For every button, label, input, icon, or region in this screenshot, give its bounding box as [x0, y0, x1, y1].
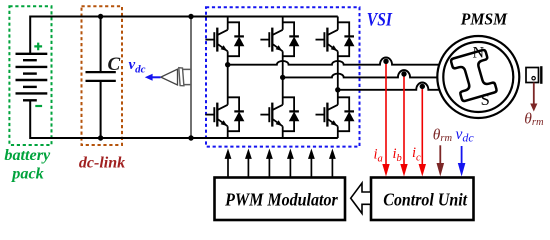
svg-text:VSI: VSI	[367, 10, 393, 30]
hollow arrow control to PWM	[351, 183, 371, 213]
wire capacitor branch	[100, 17, 102, 139]
diode D6	[344, 110, 354, 112]
diode D4	[289, 110, 299, 112]
battery plus label	[34, 43, 42, 51]
battery B1	[16, 53, 48, 55]
node phase A	[225, 62, 230, 67]
dc-link dashed box	[82, 6, 123, 145]
wire top DC rail	[30, 17, 338, 54]
gate signal arrows PWM to VSI	[227, 158, 229, 178]
svg-text:pack: pack	[10, 164, 43, 182]
wire bottom DC rail	[30, 100, 338, 138]
wire leg 3 top	[337, 17, 339, 30]
IGBT Q5	[316, 39, 325, 41]
wire phase A	[228, 57, 440, 64]
svg-text:PMSM: PMSM	[460, 10, 508, 29]
svg-text:N: N	[473, 44, 485, 61]
svg-text:PWM Modulator: PWM Modulator	[224, 190, 338, 210]
encoder dot	[532, 77, 535, 80]
wire leg 1 top	[227, 17, 229, 30]
current sensor ic dot	[420, 84, 425, 89]
svg-text:C: C	[108, 54, 121, 75]
wire phase B	[283, 70, 439, 77]
junction dot bus top	[188, 14, 193, 19]
junction dot cap bottom	[98, 135, 103, 140]
current sensor ib dot	[401, 71, 406, 76]
junction dot cap top	[98, 14, 103, 19]
wire leg 2 top	[282, 17, 284, 30]
svg-text:battery: battery	[4, 146, 51, 164]
motor outer circle	[437, 36, 519, 118]
vdc sensor output arrow	[152, 76, 161, 78]
vdc sensor probe	[183, 69, 191, 84]
IGBT Q4	[260, 114, 269, 116]
wire leg 2 bot	[282, 77, 284, 104]
svg-text:dc-link: dc-link	[79, 154, 125, 171]
battery minus label	[35, 105, 42, 107]
wire phase C	[338, 83, 440, 90]
node phase C	[335, 87, 340, 92]
current sensor ia dot	[383, 59, 388, 64]
diode D2	[234, 110, 244, 112]
svg-text:S: S	[481, 90, 490, 109]
junction dot bus bottom	[188, 135, 193, 140]
motor rotor magnet	[450, 49, 497, 101]
IGBT Q1	[205, 39, 214, 41]
diode D1	[234, 35, 244, 37]
current sensor ic line	[421, 86, 423, 164]
capacitor C	[86, 72, 116, 81]
current sensor ia line	[385, 61, 387, 164]
wire sensor bus	[190, 17, 192, 139]
input v_dc arrow	[461, 146, 463, 164]
wire leg 3 bot	[337, 90, 339, 105]
diode D3	[289, 35, 299, 37]
node phase B	[280, 75, 285, 80]
encoder end plate	[540, 66, 542, 84]
IGBT Q3	[260, 39, 269, 41]
diode D5	[344, 35, 354, 37]
input theta_rm arrow	[439, 145, 441, 163]
current sensor ib line	[403, 74, 405, 165]
svg-text:Control Unit: Control Unit	[383, 190, 468, 210]
VSI dashed box	[206, 7, 360, 146]
motor inner circle	[443, 42, 513, 112]
encoder box	[526, 68, 539, 83]
wire leg 1 bot	[227, 65, 229, 105]
PWM modulator box	[215, 178, 346, 221]
battery pack dashed box	[9, 6, 51, 145]
control unit box	[371, 178, 474, 221]
IGBT Q6	[316, 114, 325, 116]
IGBT Q2	[205, 114, 214, 116]
encoder theta_rm arrow	[533, 83, 535, 105]
